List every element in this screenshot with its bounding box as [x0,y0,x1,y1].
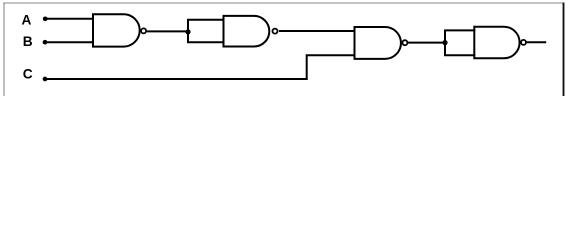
svg-text:B: B [23,34,33,49]
wire input B [45,41,94,43]
junction J1 [185,29,190,34]
output bubble U2 [273,29,278,34]
wire input C to gate U3 lower input [45,55,356,79]
wire input A [45,18,93,20]
wire J1 riser [187,20,189,42]
wire J1 split bottom [187,41,225,43]
wire J2 riser [444,30,446,55]
svg-text:A: A [22,12,32,27]
nand gate U3 [355,27,401,59]
wire U3 output to junction J2 [408,42,445,44]
wire final output [526,41,546,43]
nand gate U2 (inverter wired) [224,16,270,47]
wire J1 split top [187,19,225,21]
svg-text:C: C [23,67,33,82]
nand gate U4 (inverter wired) [474,27,519,59]
node A [43,16,48,21]
node B [43,40,48,45]
output bubble U1 [141,28,146,33]
output bubble U4 [521,40,526,45]
output bubble U3 [402,40,407,45]
junction J2 [442,40,447,45]
nand gate U1 [93,14,140,46]
wire J2 split top [444,29,475,31]
node C [43,77,48,82]
wire U2 output to U3 upper input [279,30,356,32]
wire U1 output to junction J1 [147,30,188,32]
wire J2 split bottom [444,54,475,56]
